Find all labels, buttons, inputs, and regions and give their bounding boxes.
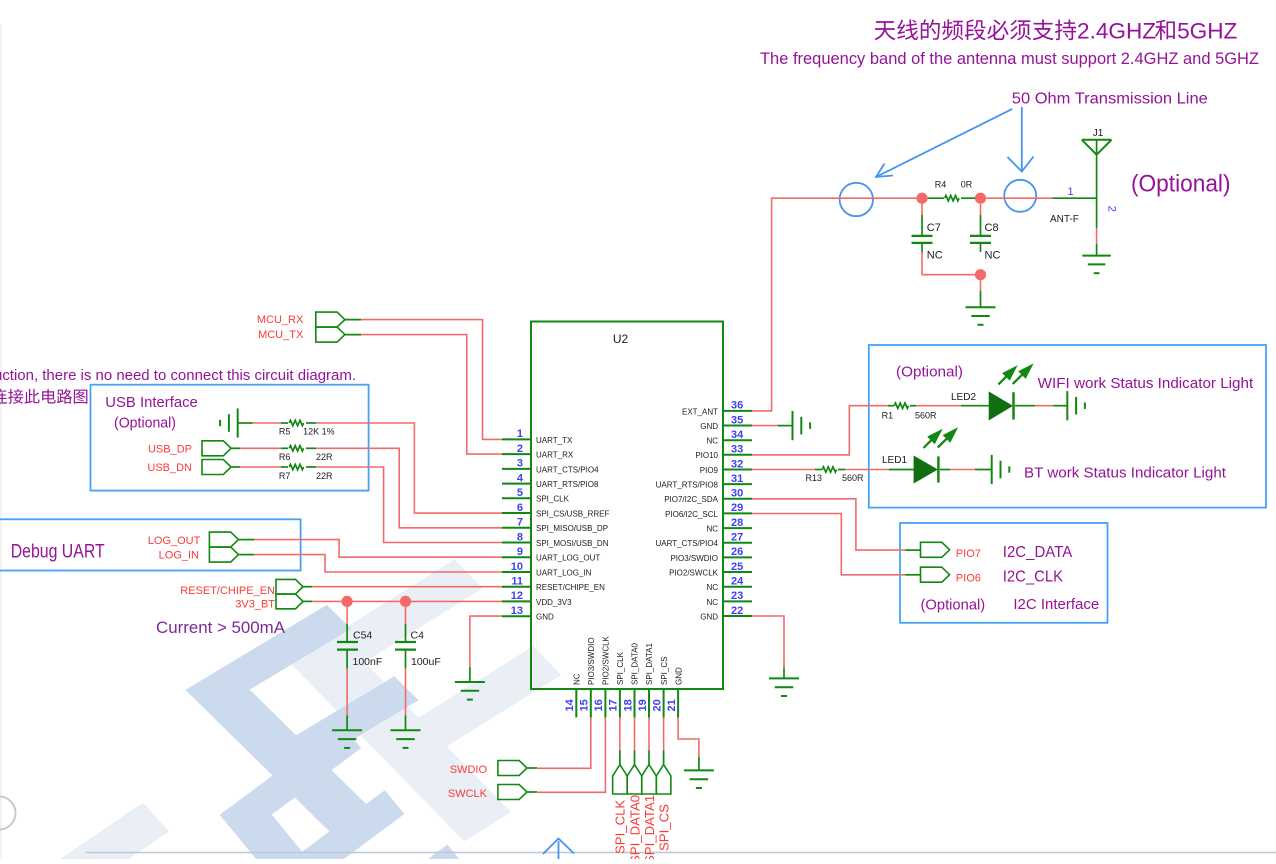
node junction dot C (C8 bottom) [975,269,986,280]
svg-text:22: 22 [731,605,743,617]
annotation circle 2 (transmission line) [1004,180,1036,212]
pin 29 PIO6/I2C_SCL [665,502,752,519]
ground LED1 (right-pointing) [991,455,993,484]
net flag LOG_OUT [209,532,238,547]
net flag MCU_TX [316,327,345,342]
ground C54 [332,729,362,731]
net flag MCU_RX [316,312,345,327]
annotation arrow 2 to circle 2 [1021,107,1023,171]
svg-text:WIFI work Status Indicator Li: WIFI work Status Indicator Light [1038,375,1254,392]
svg-text:The frequency band of the ante: The frequency band of the antenna must s… [760,49,1259,68]
net flag SPI_DATA1 [642,718,657,864]
node junction dot B (R4 right / C8) [975,193,986,204]
svg-text:NC: NC [573,673,582,685]
wire R5 to pin6 [316,423,502,513]
svg-text:PIO2/SWCLK: PIO2/SWCLK [669,568,719,577]
wire MCU_TX to pin2 [345,334,361,336]
net flag USB_DP [202,441,231,456]
resistor R13 560R [815,469,822,471]
wire pin13 GND [470,616,502,667]
box Debug UART [0,519,301,570]
svg-text:BT work Status Indicator Ligh: BT work Status Indicator Light [1024,465,1227,482]
svg-text:2.4GHZ: 2.4GHZ [1077,18,1156,43]
svg-text:SPI_CS/USB_RREF: SPI_CS/USB_RREF [536,509,609,518]
pin 2 UART_RX [502,443,574,460]
wire LED1 to ground [940,469,950,471]
net flag SPI_DATA0 [627,718,642,864]
svg-text:SPI_DATA1: SPI_DATA1 [642,795,657,859]
svg-text:14: 14 [564,698,576,711]
svg-text:19: 19 [637,699,649,711]
wire pin30 to PIO7 [752,499,905,550]
svg-text:(Optional): (Optional) [921,597,986,614]
net flag USB_DN [202,460,231,475]
svg-text:MCU_RX: MCU_RX [257,314,304,326]
pin 22 GND [700,605,752,622]
pin 35 GND [700,414,752,431]
op chip U2 body [531,322,723,690]
svg-text:J1: J1 [1093,128,1104,139]
svg-text:22R: 22R [316,471,333,481]
svg-text:RESET/CHIPE_EN: RESET/CHIPE_EN [536,583,605,592]
svg-text:(Optional): (Optional) [114,415,176,432]
pin 1 UART_TX [502,428,573,445]
svg-text:UART_TX: UART_TX [536,436,573,445]
svg-text:12K 1%: 12K 1% [303,426,335,436]
pin 11 RESET/CHIPE_EN [502,576,605,593]
net flag SWCLK [498,785,527,800]
svg-text:29: 29 [731,502,743,514]
ground pin35 (right-pointing) [792,411,794,440]
svg-text:3: 3 [517,458,523,470]
pin 28 NC [706,517,752,534]
box I2C Interface [900,523,1108,623]
ground J1 [1082,255,1111,257]
pin 8 SPI_MOSI/USB_DN [502,531,609,548]
wire SWCLK to pin16 [527,791,537,793]
pin 33 PIO10 [695,444,752,461]
svg-text:8: 8 [517,531,523,543]
svg-text:LED2: LED2 [951,392,976,403]
pin 15 PIO3/SWDIO [579,637,596,717]
svg-text:SPI_DATA0: SPI_DATA0 [631,643,640,685]
svg-text:SPI_CLK: SPI_CLK [536,495,570,504]
svg-text:18: 18 [622,699,634,711]
svg-text:NC: NC [927,250,943,262]
svg-text:100nF: 100nF [353,656,383,668]
svg-text:R4: R4 [935,180,947,190]
left window edge line [0,25,2,859]
wire dot B to antenna [986,197,1053,199]
net flag PIO7 [921,542,950,557]
annotation arrow bottom (cut) [558,841,560,859]
node junction dot D (C54) [342,596,353,607]
svg-text:7: 7 [517,517,523,529]
svg-text:UART_LOG_IN: UART_LOG_IN [536,568,592,577]
resistor R5 12K 1% [253,422,282,424]
wire EXT_ANT riser from pin36 [752,198,922,411]
svg-text:SPI_MISO/USB_DP: SPI_MISO/USB_DP [536,524,608,533]
title chinese: antenna band must support 2.4GHZ and 5GHZ [875,19,1077,40]
svg-text:SPI_CS: SPI_CS [660,657,669,685]
svg-text:28: 28 [731,517,743,529]
svg-text:LOG_OUT: LOG_OUT [148,535,201,547]
net flag PIO6 [921,567,950,582]
ground pin21 [684,769,714,771]
svg-text:R1: R1 [882,410,894,420]
svg-text:5: 5 [517,487,523,499]
pin 25 PIO2/SWCLK [669,561,752,578]
svg-text:(Optional): (Optional) [1131,171,1231,198]
svg-text:I2C_CLK: I2C_CLK [1003,569,1064,586]
svg-text:36: 36 [731,400,743,412]
svg-text:ANT-F: ANT-F [1050,214,1079,225]
resistor R7 22R [232,466,240,468]
svg-text:6: 6 [517,502,523,514]
svg-text:(Optional): (Optional) [896,364,963,381]
svg-text:NC: NC [985,250,1001,262]
wire C7 bottom to C8 bottom [922,252,981,275]
wire J1 pin2 to ground [1096,228,1098,244]
capacitor C54 100nF [346,607,348,624]
pin 20 SPI_CS [651,657,668,718]
pin 10 UART_LOG_IN [502,561,592,578]
svg-text:SPI_CS: SPI_CS [656,804,671,851]
wire LOG_OUT to pin9 [239,539,254,541]
capacitor C8 [980,204,982,215]
capacitor C7 [921,198,923,215]
wire pin22 GND [752,616,784,668]
svg-text:SPI_DATA0: SPI_DATA0 [627,795,642,859]
wire SWDIO to pin15 [527,767,537,769]
svg-text:11: 11 [511,576,523,588]
svg-text:PIO6/I2C_SCL: PIO6/I2C_SCL [665,510,718,519]
svg-text:2: 2 [1105,206,1117,212]
svg-text:VDD_3V3: VDD_3V3 [536,598,572,607]
box LED indicators [869,345,1266,508]
svg-text:GND: GND [700,612,718,621]
resistor R1 560R [888,405,894,407]
wire 3V3_BT to pin12 [303,600,312,602]
pin 32 PIO9 [700,458,752,475]
pin 27 UART_CTS/PIO4 [655,532,752,549]
LED D1 (LED1) [914,456,937,482]
svg-text:1: 1 [1067,186,1073,198]
svg-text:R7: R7 [279,471,291,481]
svg-text:UART_RTS/PIO8: UART_RTS/PIO8 [536,480,599,489]
svg-text:9: 9 [517,546,523,558]
svg-text:C4: C4 [411,630,425,642]
svg-text:PIO10: PIO10 [695,451,718,460]
pin 23 NC [706,590,752,607]
svg-text:SPI_CLK: SPI_CLK [613,800,628,854]
wire LOG_IN to pin10 [239,554,254,556]
net flag SWDIO [498,761,527,776]
pin 18 SPI_DATA0 [622,643,639,718]
wire pin35 GND [752,425,778,427]
pin 5 SPI_CLK [502,487,570,504]
svg-text:PIO7: PIO7 [956,548,981,560]
svg-text:UART_CTS/PIO4: UART_CTS/PIO4 [536,465,599,474]
net flag SPI_CS [656,718,671,852]
svg-text:25: 25 [731,561,743,573]
pin 19 SPI_DATA1 [637,643,654,718]
svg-text:26: 26 [731,546,743,558]
wire pin21 GND [678,718,699,758]
wire pin32 to R13 [752,469,815,471]
svg-text:MCU_TX: MCU_TX [258,329,304,341]
svg-text:32: 32 [731,458,743,470]
LED1 emission arrows [924,436,936,448]
capacitor C4 100uF [405,607,407,624]
svg-text:R13: R13 [805,473,822,483]
svg-text:PIO9: PIO9 [700,466,719,475]
svg-text:13: 13 [511,605,523,617]
svg-text:USB_DP: USB_DP [148,444,192,456]
svg-text:10: 10 [511,561,523,573]
svg-text:NC: NC [706,525,718,534]
svg-text:I2C_DATA: I2C_DATA [1003,544,1073,561]
pin 16 PIO2/SWCLK [593,635,610,717]
svg-text:35: 35 [731,414,743,426]
pin 14 NC [564,673,581,717]
left note chinese (cut) [0,389,87,404]
svg-text:2: 2 [517,443,523,455]
svg-text:560R: 560R [842,473,864,483]
svg-text:LOG_IN: LOG_IN [159,550,199,562]
node junction dot A (R4 left / C7) [916,193,927,204]
svg-text:SPI_DATA1: SPI_DATA1 [645,643,654,685]
pin 26 PIO3/SWDIO [670,546,752,563]
svg-text:3V3_BT: 3V3_BT [235,599,275,611]
watermark circle left edge [0,797,16,830]
svg-text:0R: 0R [961,180,973,190]
pin 9 UART_LOG_OUT [502,546,600,563]
svg-text:100uF: 100uF [411,656,441,668]
pin 13 GND [502,605,554,622]
net flag 3V3_BT [276,594,303,609]
wire LED2 to ground [1015,405,1035,407]
ground pin22 [769,677,799,679]
wire MCU_RX to pin1 [345,319,361,321]
svg-text:33: 33 [731,444,743,456]
ground pin13 [455,681,485,683]
svg-text:SWDIO: SWDIO [450,764,488,776]
net flag SPI_CLK [613,718,628,855]
wire pin29 to PIO6 [752,514,905,575]
ground C4 [391,729,421,731]
svg-text:Current > 500mA: Current > 500mA [156,618,286,637]
svg-text:12: 12 [511,590,523,602]
svg-text:16: 16 [593,699,605,711]
resistor R4 [928,197,944,199]
svg-text:UART_RTS/PIO8: UART_RTS/PIO8 [656,481,719,490]
svg-text:UART_CTS/PIO4: UART_CTS/PIO4 [655,539,718,548]
svg-text:NC: NC [706,598,718,607]
svg-text:PIO3/SWDIO: PIO3/SWDIO [670,554,718,563]
wire RESET to pin11 [303,586,312,588]
svg-text:EXT_ANT: EXT_ANT [682,407,718,416]
svg-text:GND: GND [674,667,683,685]
pin 12 VDD_3V3 [502,590,572,607]
svg-text:30: 30 [731,488,743,500]
wire USB_DN to pin8 [316,467,502,543]
wire C4 to ground [405,669,407,716]
svg-text:C8: C8 [985,222,999,234]
pin 3 UART_CTS/PIO4 [502,458,599,475]
pin 36 EXT_ANT [682,400,752,417]
wire green J1 pin1 [1053,197,1097,199]
svg-text:USB_DN: USB_DN [147,462,192,474]
svg-text:PIO3/SWDIO: PIO3/SWDIO [587,637,596,685]
ground left-pointing (R5) [237,408,239,437]
svg-text:NC: NC [706,583,718,592]
svg-text:Debug UART: Debug UART [11,542,105,563]
svg-text:20: 20 [651,699,663,711]
svg-text:PIO2/SWCLK: PIO2/SWCLK [602,635,611,685]
pin 4 UART_RTS/PIO8 [502,472,599,489]
annotation arrow 1 to circle 1 [876,109,1012,177]
svg-text:27: 27 [731,532,743,544]
svg-text:4: 4 [517,472,524,484]
svg-text:34: 34 [731,429,744,441]
svg-text:PIO6: PIO6 [956,573,981,585]
svg-text:560R: 560R [915,410,937,420]
pin 17 SPI_CLK [608,651,625,717]
svg-text:USB Interface: USB Interface [105,394,198,411]
wire C54 to ground [346,669,348,716]
svg-text:SWCLK: SWCLK [448,788,488,800]
antenna J1 symbol [1082,139,1112,141]
ground LED2 (right-pointing) [1066,391,1068,420]
svg-text:5GHZ: 5GHZ [1177,18,1237,43]
pin 21 GND [666,667,683,718]
svg-text:1: 1 [517,428,523,440]
svg-text:I2C Interface: I2C Interface [1013,596,1099,613]
svg-text:21: 21 [666,699,678,711]
svg-text:RESET/CHIPE_EN: RESET/CHIPE_EN [180,585,275,597]
ground below C8 [966,306,996,308]
svg-text:23: 23 [731,590,743,602]
svg-text:22R: 22R [316,452,333,462]
svg-text:C7: C7 [927,222,941,234]
pin 34 NC [706,429,752,446]
svg-text:U2: U2 [613,332,629,346]
watermark baseline rule [86,852,1276,854]
wire R13 to LED1 [845,469,889,471]
svg-text:R5: R5 [279,426,291,436]
svg-text:C54: C54 [353,630,372,642]
svg-text:R6: R6 [279,452,291,462]
svg-text:uction, there is no need to co: uction, there is no need to connect this… [0,367,356,384]
svg-text:UART_RX: UART_RX [536,451,574,460]
node junction dot E (C4) [400,596,411,607]
net flag LOG_IN [209,547,238,562]
watermark logo background [0,496,695,864]
svg-text:15: 15 [579,699,591,711]
pin 7 SPI_MISO/USB_DP [502,517,608,534]
resistor R6 22R [232,447,240,449]
svg-text:NC: NC [706,437,718,446]
wire USB_DP to pin7 [316,448,502,528]
pin 6 SPI_CS/USB_RREF [502,502,609,519]
LED D2 (LED2) [989,392,1012,419]
wire R1 to LED2 [916,405,961,407]
wire dot C to ground [980,280,982,291]
svg-text:31: 31 [731,473,743,485]
svg-text:UART_LOG_OUT: UART_LOG_OUT [536,554,600,563]
net flag RESET/CHIPE_EN [276,579,303,594]
pin 31 UART_RTS/PIO8 [656,473,752,490]
wire pin33 to R1 [752,406,888,455]
box USB Interface [91,385,369,491]
svg-text:LED1: LED1 [882,455,907,466]
svg-text:17: 17 [608,699,620,711]
annotation circle 1 (transmission line) [840,183,873,216]
svg-text:50 Ohm Transmission Line: 50 Ohm Transmission Line [1012,91,1208,108]
svg-text:SPI_MOSI/USB_DN: SPI_MOSI/USB_DN [536,539,609,548]
pin 30 PIO7/I2C_SDA [664,488,752,505]
pin 24 NC [706,576,752,593]
svg-text:24: 24 [731,576,744,588]
svg-text:GND: GND [700,422,718,431]
svg-text:PIO7/I2C_SDA: PIO7/I2C_SDA [664,495,718,504]
svg-text:SPI_CLK: SPI_CLK [616,651,625,685]
LED2 emission arrows [999,372,1011,384]
svg-text:GND: GND [536,613,554,622]
